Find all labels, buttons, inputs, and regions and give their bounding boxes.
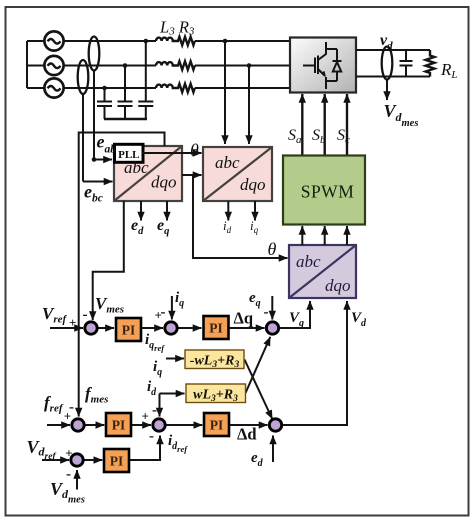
svg-text:abc: abc [296,252,321,271]
svg-text:fref: fref [44,393,64,415]
svg-text:iq: iq [250,218,259,235]
svg-text:+: + [142,409,149,424]
svg-text:dqo: dqo [240,175,266,194]
svg-text:-: - [264,305,269,321]
svg-text:+: + [69,315,76,330]
svg-text:-: - [152,403,157,419]
svg-text:abc: abc [215,153,240,172]
svg-text:iq: iq [175,290,184,309]
svg-text:iqref: iqref [145,332,165,353]
svg-text:PI: PI [122,323,136,338]
svg-text:Vdref: Vdref [27,437,57,462]
svg-text:Vmes: Vmes [95,294,124,316]
svg-text:Sa: Sa [288,127,302,146]
svg-text:SPWM: SPWM [301,182,355,202]
svg-text:Vq: Vq [289,310,304,329]
svg-text:Δq: Δq [234,309,254,328]
svg-text:eab: eab [97,132,117,156]
svg-text:fmes: fmes [85,384,108,406]
svg-text:Vref: Vref [42,304,68,326]
svg-text:ed: ed [251,450,264,469]
svg-text:RL: RL [440,60,458,81]
svg-text:θ: θ [190,140,199,160]
svg-text:id: id [147,379,157,398]
svg-text:abc: abc [124,158,149,177]
svg-text:ed: ed [131,217,144,237]
svg-text:dqo: dqo [151,173,177,192]
svg-text:eq: eq [249,290,261,309]
svg-text:-: - [161,305,166,321]
svg-text:PI: PI [110,454,124,469]
svg-text:+: + [65,446,72,461]
svg-text:Vdmes: Vdmes [384,101,419,129]
svg-text:-: - [83,307,88,323]
svg-text:θ: θ [268,239,277,259]
svg-text:-: - [66,467,71,483]
svg-text:-: - [69,400,74,416]
svg-text:id: id [223,218,232,235]
svg-text:Vdmes: Vdmes [50,479,85,506]
svg-text:dqo: dqo [325,276,351,295]
svg-text:Vd: Vd [351,310,367,329]
svg-text:L3 R3: L3 R3 [159,18,195,38]
svg-text:Δd: Δd [237,425,257,444]
svg-text:ebc: ebc [84,182,103,205]
svg-text:PI: PI [209,321,223,336]
svg-text:-: - [149,429,154,445]
svg-text:PI: PI [112,418,126,433]
svg-text:iq: iq [153,359,162,378]
svg-text:wL3+R3: wL3+R3 [193,388,238,405]
svg-text:idref: idref [168,433,188,454]
svg-text:PI: PI [210,418,224,433]
